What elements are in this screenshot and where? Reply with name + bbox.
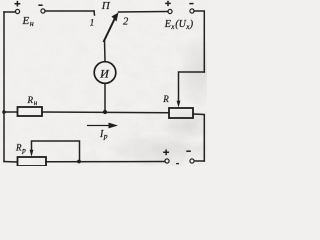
resistor R [169, 108, 193, 118]
wire left vertical [3, 12, 5, 162]
wire Ex minus to top-right corner and down right edge [194, 11, 204, 72]
node Ex plus terminal [168, 9, 172, 13]
wire Rp slider loop up and over to bottom junction [32, 141, 80, 162]
resistor Rp slider arrowhead [30, 150, 34, 157]
label plus En [15, 1, 21, 7]
wire top-left from corner to En plus terminal [4, 11, 16, 13]
label plus Ex [165, 1, 171, 6]
resistor Rn [18, 107, 43, 116]
svg-text:R: R [162, 94, 169, 104]
current arrow Ip [87, 125, 112, 127]
switch P arm arrowhead [112, 13, 119, 22]
svg-text:1: 1 [90, 18, 95, 28]
galvanometer U circle [94, 62, 116, 84]
switch P arm [104, 17, 116, 42]
svg-text:R: R [27, 95, 34, 105]
svg-text:н: н [30, 19, 34, 28]
svg-text:П: П [101, 0, 111, 12]
label battery plus [163, 150, 169, 156]
svg-text:2: 2 [123, 16, 129, 27]
svg-text:И: И [99, 67, 110, 81]
wire battery plus to Rp junction and Rp resistor [46, 161, 165, 163]
resistor Rp (rheostat, clipped at bottom) [18, 157, 47, 166]
node junction dot galvanometer to middle wire [103, 110, 107, 114]
svg-text:р: р [21, 147, 26, 155]
svg-text:E: E [164, 19, 171, 30]
node En minus terminal [41, 9, 45, 13]
node junction dot Rp loop on bottom wire [77, 160, 81, 164]
wire bottom right corner to battery minus terminal [195, 160, 205, 162]
node battery plus terminal [165, 159, 169, 163]
wire R right terminal jog down right edge to battery [193, 114, 204, 161]
wire switch contact 2 to Ex plus terminal [119, 11, 169, 14]
wire switch pivot down to galvanometer [104, 40, 107, 62]
wire middle horizontal Rn to R [42, 111, 169, 114]
label battery minus [186, 150, 191, 152]
wire from right edge to R slider [179, 72, 205, 102]
node junction dot at left edge of middle wire [2, 110, 6, 114]
wire Rp left side to bottom-left corner [4, 161, 17, 164]
node battery minus terminal [190, 159, 194, 163]
resistor R slider arrowhead [177, 101, 181, 108]
label small dash between battery terminals [176, 163, 179, 165]
svg-text:н: н [34, 99, 38, 107]
node switch contact 1 tick [93, 11, 96, 15]
label minus Ex [189, 3, 193, 5]
wire galvanometer bottom to middle junction [104, 84, 106, 113]
node Ex minus terminal [190, 9, 194, 13]
svg-text:E: E [22, 15, 30, 27]
svg-text:р: р [103, 132, 108, 141]
svg-text:): ) [189, 19, 194, 30]
label minus En [38, 4, 42, 6]
svg-text:(U: (U [175, 19, 186, 30]
svg-text:R: R [15, 142, 22, 152]
wire middle horizontal left segment [4, 111, 17, 113]
wire En minus terminal to switch contact 1 [45, 10, 94, 12]
node En plus terminal [15, 9, 19, 13]
